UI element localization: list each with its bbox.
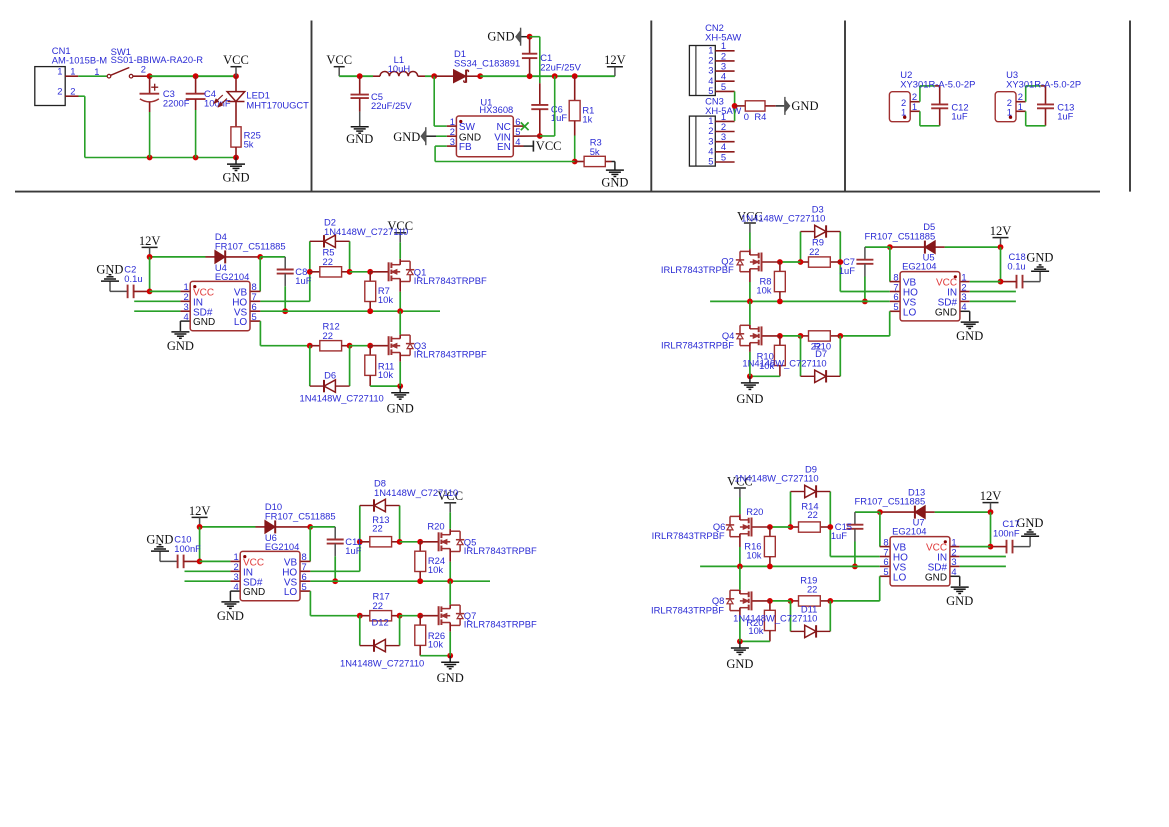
svg-text:GND: GND [96,263,123,277]
svg-text:IRLR7843TRPBF: IRLR7843TRPBF [661,339,734,350]
svg-text:4: 4 [515,136,520,147]
svg-text:1: 1 [1018,101,1023,112]
svg-text:1N4148W_C727110: 1N4148W_C727110 [324,226,408,237]
svg-text:1N4148W_C727110: 1N4148W_C727110 [340,658,424,669]
svg-text:XY301R-A-5.0-2P: XY301R-A-5.0-2P [1006,78,1081,89]
svg-text:IRLR7843TRPBF: IRLR7843TRPBF [464,619,537,630]
svg-text:22: 22 [372,522,382,533]
svg-text:GND: GND [243,587,265,598]
svg-text:GND: GND [393,130,420,144]
svg-text:GND: GND [925,572,947,583]
svg-text:EG2104: EG2104 [902,260,936,271]
svg-text:IRLR7843TRPBF: IRLR7843TRPBF [464,545,537,556]
svg-text:1uF: 1uF [839,265,855,276]
svg-text:10k: 10k [746,550,761,561]
svg-text:GND: GND [487,30,514,44]
svg-text:5k: 5k [244,139,254,150]
svg-text:FR107_C511885: FR107_C511885 [864,230,935,241]
svg-text:22: 22 [809,246,819,257]
svg-text:GND: GND [193,317,215,328]
svg-text:R4: R4 [754,111,766,122]
svg-text:4: 4 [183,311,188,322]
svg-text:GND: GND [1016,516,1043,530]
svg-text:2: 2 [141,64,146,75]
svg-text:10k: 10k [756,285,771,296]
svg-text:5: 5 [302,581,307,592]
svg-text:1uF: 1uF [831,530,847,541]
svg-text:HX3608: HX3608 [479,104,513,115]
svg-text:1N4148W_C727110: 1N4148W_C727110 [742,357,826,368]
svg-text:3: 3 [450,136,455,147]
svg-text:10uH: 10uH [388,63,410,74]
svg-text:12V: 12V [604,53,626,67]
svg-text:IRLR7843TRPBF: IRLR7843TRPBF [414,349,487,360]
svg-text:0.1u: 0.1u [124,273,142,284]
svg-text:1N4148W_C727110: 1N4148W_C727110 [374,487,458,498]
svg-text:SS34_C183891: SS34_C183891 [454,58,520,69]
svg-text:12V: 12V [139,234,161,248]
svg-text:1k: 1k [582,114,592,125]
svg-text:EG2104: EG2104 [265,541,299,552]
svg-text:1uF: 1uF [295,275,311,286]
svg-text:12V: 12V [990,224,1012,238]
svg-text:1: 1 [57,66,62,77]
svg-text:GND: GND [217,609,244,623]
svg-text:IRLR7843TRPBF: IRLR7843TRPBF [414,275,487,286]
svg-text:VCC: VCC [536,139,562,153]
svg-text:FR107_C511885: FR107_C511885 [215,241,286,252]
svg-text:R20: R20 [427,521,444,532]
svg-text:LO: LO [284,587,298,598]
svg-text:GND: GND [601,175,628,189]
svg-text:GND: GND [946,594,973,608]
svg-text:5: 5 [721,151,726,162]
svg-text:1uF: 1uF [951,111,967,122]
svg-text:GND: GND [222,171,249,185]
svg-text:10k: 10k [428,639,443,650]
svg-text:LO: LO [893,572,907,583]
svg-text:EN: EN [497,142,511,153]
svg-text:22: 22 [807,583,817,594]
svg-text:1: 1 [912,101,917,112]
svg-text:LO: LO [903,307,917,318]
svg-text:22uF/25V: 22uF/25V [540,62,581,73]
svg-text:GND: GND [736,392,763,406]
svg-text:4: 4 [961,301,966,312]
svg-text:4: 4 [233,581,238,592]
svg-text:1N4148W_C727110: 1N4148W_C727110 [734,473,818,484]
svg-text:R20: R20 [746,506,763,517]
svg-text:GND: GND [146,533,173,547]
svg-text:5: 5 [893,301,898,312]
svg-text:2: 2 [70,85,75,96]
svg-text:10k: 10k [759,360,774,371]
svg-text:FR107_C511885: FR107_C511885 [265,511,336,522]
svg-text:IRLR7843TRPBF: IRLR7843TRPBF [661,264,734,275]
svg-text:GND: GND [167,339,194,353]
svg-text:GND: GND [346,132,373,146]
svg-text:MHT170UGCT: MHT170UGCT [246,99,309,110]
svg-text:GND: GND [387,402,414,416]
svg-text:D12: D12 [372,617,389,628]
svg-text:GND: GND [726,657,753,671]
svg-text:5: 5 [708,156,713,167]
svg-text:GND: GND [437,671,464,685]
svg-text:1uF: 1uF [1057,111,1073,122]
svg-text:100nF: 100nF [174,543,201,554]
svg-text:0.1u: 0.1u [1007,261,1025,272]
svg-text:22uF/25V: 22uF/25V [371,100,412,111]
svg-text:LO: LO [234,317,248,328]
svg-text:XY301R-A-5.0-2P: XY301R-A-5.0-2P [900,78,975,89]
svg-text:GND: GND [935,307,957,318]
svg-text:VCC: VCC [223,53,249,67]
svg-text:1N4148W_C727110: 1N4148W_C727110 [300,392,384,403]
svg-text:GND: GND [1026,251,1053,265]
svg-text:12V: 12V [189,504,211,518]
svg-text:22: 22 [323,256,333,267]
svg-text:IRLR7843TRPBF: IRLR7843TRPBF [651,604,724,615]
svg-text:4: 4 [951,566,956,577]
svg-text:EG2104: EG2104 [215,271,249,282]
svg-text:SS01-BBIWA-RA20-R: SS01-BBIWA-RA20-R [111,54,204,65]
svg-text:1uF: 1uF [551,112,567,123]
svg-text:5: 5 [883,566,888,577]
svg-text:100nF: 100nF [993,527,1020,538]
svg-text:D6: D6 [324,370,336,381]
svg-text:0: 0 [744,111,749,122]
svg-text:5: 5 [721,81,726,92]
svg-text:22: 22 [807,509,817,520]
svg-text:EG2104: EG2104 [892,526,926,537]
svg-text:10k: 10k [428,564,443,575]
svg-text:5: 5 [708,85,713,96]
svg-text:5k: 5k [590,146,600,157]
svg-text:22: 22 [323,330,333,341]
svg-text:2: 2 [57,86,62,97]
svg-text:10k: 10k [378,369,393,380]
svg-text:5: 5 [252,311,257,322]
svg-text:FR107_C511885: FR107_C511885 [854,496,925,507]
svg-text:12V: 12V [980,489,1002,503]
svg-text:10k: 10k [378,294,393,305]
svg-text:1: 1 [94,66,99,77]
svg-text:FB: FB [459,142,472,153]
svg-text:XH-5AW: XH-5AW [705,31,741,42]
svg-text:1N4148W_C727110: 1N4148W_C727110 [741,213,825,224]
svg-text:GND: GND [791,99,818,113]
svg-text:1uF: 1uF [345,545,361,556]
svg-text:IRLR7843TRPBF: IRLR7843TRPBF [652,530,725,541]
svg-text:VCC: VCC [326,53,352,67]
svg-text:GND: GND [956,329,983,343]
svg-text:AM-1015B-M: AM-1015B-M [52,55,107,66]
svg-text:10k: 10k [748,625,763,636]
svg-text:1: 1 [70,65,75,76]
svg-text:22: 22 [373,600,383,611]
